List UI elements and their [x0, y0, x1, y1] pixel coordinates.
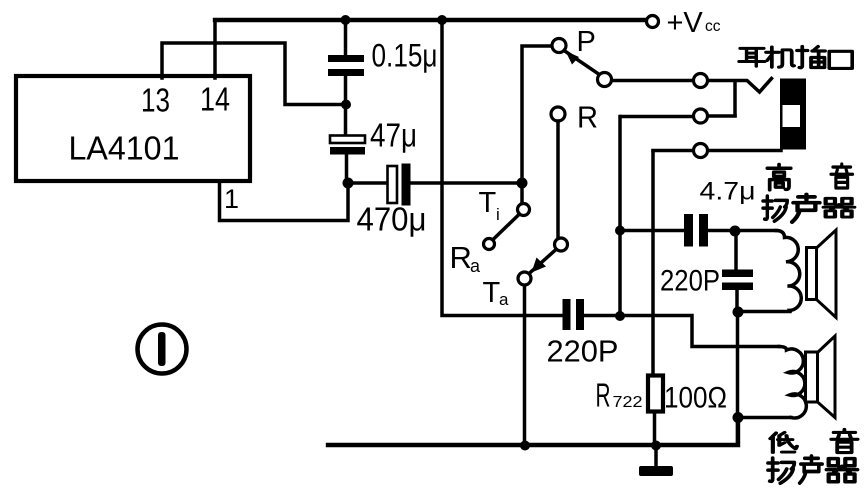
- svg-text:R: R: [450, 240, 472, 275]
- IC U1 label LA4101: [69, 130, 180, 167]
- pin label 13: [141, 82, 170, 119]
- capacitor 4.7u: [684, 214, 708, 247]
- wire left vertical from rail to 220P: [442, 20, 562, 316]
- wire tweeter bottom: [742, 310, 790, 314]
- switch R lower contact circle: [555, 238, 568, 251]
- wire vertical x735 row1-row2: [733, 81, 737, 116]
- wire pin 14 to top rail: [213, 20, 217, 78]
- wire row3 down to R722: [653, 151, 655, 446]
- label P: [577, 26, 596, 58]
- label Ti: [479, 187, 500, 224]
- wire from 220P to woofer step: [585, 316, 780, 347]
- label 220P: [547, 334, 619, 369]
- wire Ti stub: [520, 183, 524, 204]
- label R: [577, 100, 598, 135]
- pin label 1: [224, 184, 239, 214]
- wire +Vcc top rail: [215, 18, 646, 22]
- svg-text:100Ω: 100Ω: [664, 382, 727, 415]
- capacitor 220P coupling: [563, 299, 585, 330]
- wire R throw line: [556, 121, 560, 238]
- svg-text:14: 14: [200, 81, 230, 118]
- wire pin 1 loop to node: [220, 181, 349, 221]
- wire row1 to jack tip: [612, 79, 772, 93]
- wire row3 to jack sleeve: [653, 149, 781, 153]
- svg-text:47μ: 47μ: [370, 117, 417, 154]
- switch P pole circle: [552, 39, 566, 53]
- wire vertical x737 through 220P: [736, 231, 738, 443]
- wire P pole riser: [522, 46, 552, 183]
- switch Ta arm with arrow: [529, 250, 557, 275]
- wire woofer bottom: [742, 416, 791, 420]
- svg-text:a: a: [470, 256, 481, 276]
- ground rail: [328, 417, 738, 445]
- svg-text:R: R: [596, 377, 611, 414]
- figure number 1 circled: [138, 325, 187, 374]
- switch R circle: [551, 107, 565, 121]
- label 100ohm: [664, 382, 727, 415]
- label diyin yangshengqi (woofer): [770, 432, 797, 452]
- wire row2: [621, 114, 735, 118]
- svg-text:P: P: [577, 26, 596, 58]
- wire node row y183: [348, 181, 522, 185]
- label 220P shunt: [660, 265, 720, 298]
- svg-text:+V: +V: [667, 7, 704, 39]
- svg-text:0.15μ: 0.15μ: [372, 38, 438, 74]
- svg-text:T: T: [479, 187, 497, 219]
- terminal +Vcc: [647, 16, 659, 28]
- svg-text:220P: 220P: [547, 334, 619, 369]
- svg-text:470μ: 470μ: [357, 201, 427, 238]
- switch P arm with arrow: [564, 51, 600, 76]
- headphone jack plug symbol: [780, 79, 806, 150]
- svg-text:cc: cc: [705, 18, 721, 35]
- woofer voice coil: [779, 347, 806, 418]
- pin label 14: [200, 81, 230, 118]
- tweeter speaker: [807, 230, 837, 318]
- capacitor 470u electrolytic: [388, 164, 411, 206]
- resistor R722 body: [648, 376, 663, 412]
- svg-text:T: T: [483, 277, 501, 309]
- label R722: [596, 377, 643, 414]
- label 470u: [357, 201, 427, 238]
- wire Ta to ground rail: [523, 285, 527, 446]
- woofer speaker: [806, 336, 836, 418]
- label 47u: [370, 117, 417, 154]
- capacitor 220P tweeter shunt: [722, 270, 753, 291]
- svg-text:4.7μ: 4.7μ: [700, 178, 756, 206]
- jack row3 circle: [694, 144, 708, 158]
- capacitor 0.15u: [328, 55, 364, 76]
- IC U1 LA4101 box: [16, 76, 250, 181]
- switch Ra circle: [484, 239, 495, 250]
- switch Ti-Ra arm: [493, 214, 520, 240]
- svg-text:722: 722: [613, 394, 643, 411]
- wire vertical x620: [618, 117, 622, 317]
- svg-text:LA4101: LA4101: [69, 130, 180, 167]
- wire capacitor column: [346, 20, 347, 180]
- label 0.15u: [372, 38, 438, 74]
- switch P throw circle: [598, 73, 612, 87]
- wire pin 13 to node between caps: [162, 43, 341, 105]
- capacitor 47u electrolytic: [330, 136, 365, 155]
- label erji chakou (headphone jack): [739, 48, 765, 66]
- label +Vcc: [667, 7, 721, 39]
- switch Ti circle: [518, 204, 530, 216]
- svg-text:i: i: [496, 205, 500, 224]
- label gaoyin yangshengqi (tweeter): [767, 165, 790, 190]
- wire tone row y230: [620, 229, 776, 233]
- label Ta: [483, 277, 510, 309]
- svg-text:13: 13: [141, 82, 170, 119]
- jack row2 circle: [694, 109, 708, 123]
- svg-text:a: a: [499, 290, 509, 309]
- jack row1 circle: [694, 74, 708, 88]
- svg-text:220P: 220P: [660, 265, 720, 298]
- svg-text:1: 1: [224, 184, 239, 214]
- svg-text:R: R: [577, 100, 598, 135]
- label Ra: [450, 240, 482, 276]
- label 4.7u: [700, 178, 756, 206]
- switch Ta circle: [518, 272, 531, 285]
- tweeter voice coil: [776, 231, 801, 311]
- ground symbol: [639, 446, 673, 476]
